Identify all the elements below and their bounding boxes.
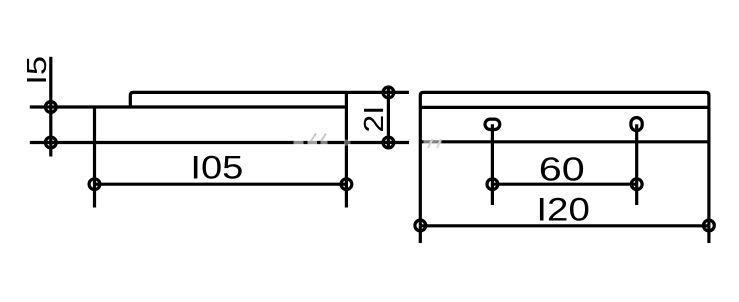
- svg-text:I20: I20: [536, 191, 590, 227]
- right slot centre line down to 60-dim: [635, 124, 638, 205]
- dim circle 15 top: [45, 102, 56, 113]
- dim circle 15 bottom: [45, 137, 56, 148]
- dim circle 60 right: [631, 179, 642, 190]
- left mounting slot (horizontal oval): [485, 119, 500, 129]
- left slot centre line down to 60-dim: [491, 124, 494, 205]
- right view: bottom edge / dimension 120 line: [420, 224, 709, 227]
- dim circle 21 bottom: [383, 137, 394, 148]
- svg-text:60: 60: [539, 151, 585, 188]
- faint gray watermark letter traces: [311, 134, 441, 149]
- svg-text:I05: I05: [190, 150, 243, 186]
- dim circle 120 left: [415, 220, 426, 231]
- dim circle 120 right: [704, 220, 715, 231]
- left view: body bottom edge (extends left to 15-dim and right to 21-dim): [30, 141, 409, 144]
- left view: shelf top edge with rounded left corner, extends right to 21-dim circles: [130, 92, 409, 107]
- right mounting slot (vertical oval): [631, 118, 642, 131]
- right view: outline with rounded top corners: [420, 92, 709, 225]
- dimension 105: horizontal dimension line: [95, 183, 347, 186]
- dimension 21: vertical dimension line: [387, 87, 390, 148]
- right view: right edge stub below bottom: [707, 226, 710, 243]
- dim circle 21 top: [383, 87, 394, 98]
- faint white watermark lightening the drawing lines: [294, 139, 442, 146]
- left view: body top edge (extends left to 15-dim): [30, 105, 347, 108]
- svg-text:I5: I5: [21, 56, 52, 85]
- left view: body left edge + extension down to 105-dim: [93, 107, 96, 208]
- right view: left edge stub below bottom: [419, 226, 422, 243]
- right view: body bottom line: [420, 140, 709, 143]
- dim circle 105 right: [341, 179, 352, 190]
- dimension 60: horizontal dimension line: [492, 183, 636, 186]
- left view: right (wall) edge + extension down to 105-dim: [345, 92, 348, 207]
- right view: shelf underside line: [420, 106, 709, 109]
- dim circle 105 left: [89, 179, 100, 190]
- dim circle 60 left: [487, 179, 498, 190]
- svg-text:2I: 2I: [358, 106, 389, 133]
- dimension 15: vertical dimension line: [49, 57, 52, 157]
